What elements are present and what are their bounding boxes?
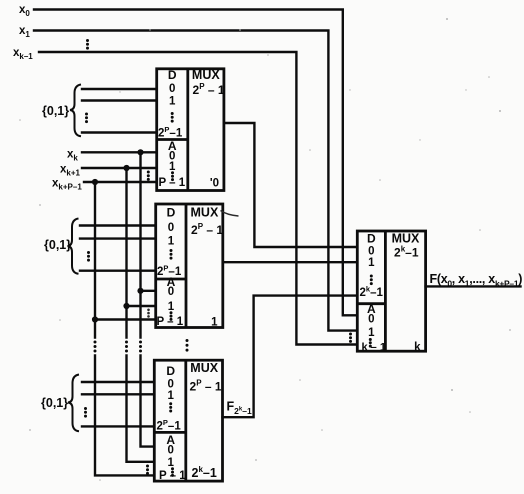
svg-text:1: 1 bbox=[368, 327, 375, 339]
svg-text:D: D bbox=[166, 364, 175, 378]
svg-text:1: 1 bbox=[167, 390, 174, 402]
mux U3 box bbox=[154, 360, 222, 481]
svg-text:0: 0 bbox=[368, 313, 374, 325]
ellipsis group2 D inputs bbox=[87, 251, 90, 262]
svg-text:2P – 1: 2P – 1 bbox=[191, 222, 223, 237]
junction dot xk / U2 A0 row bbox=[137, 288, 143, 294]
wire U3 output to U4 D(2^k-1) bbox=[223, 296, 358, 418]
mux U4 box bbox=[357, 231, 425, 351]
wire xk+P-1 branch to U2 A(P-1) bbox=[95, 318, 156, 320]
ellipsis U3 D column bbox=[169, 402, 172, 412]
ellipsis vertical break xk+1 bbox=[125, 341, 128, 353]
brace group3 bbox=[68, 375, 79, 432]
svg-text:MUX: MUX bbox=[392, 232, 420, 246]
ellipsis U1 A inputs outside bbox=[147, 171, 150, 181]
svg-text:2P – 1: 2P – 1 bbox=[190, 379, 222, 394]
junction dot xk+P-1 / U1 A(P-1) row bbox=[92, 179, 98, 185]
U1 A column labels bbox=[168, 139, 177, 173]
wire U2 output to U4 D1 bbox=[223, 261, 357, 263]
svg-text:2k–1: 2k–1 bbox=[360, 284, 384, 299]
stray mark near U2 MUX label bbox=[221, 211, 239, 217]
mux U1 box bbox=[157, 69, 224, 191]
wire xk+1 to U1 A1 bbox=[82, 167, 157, 169]
junction dot xk+1 / U2 A1 row bbox=[123, 303, 129, 309]
wire vertical xk+P-1 lower segment into U3 A(P-1) bbox=[95, 356, 154, 476]
svg-text:0: 0 bbox=[168, 222, 174, 234]
wire group1 D1 input bbox=[82, 99, 157, 101]
svg-text:2P–1: 2P–1 bbox=[157, 418, 182, 433]
svg-text:D: D bbox=[367, 232, 376, 246]
svg-text:0: 0 bbox=[168, 286, 174, 298]
wire vertical xk+1 upper segment bbox=[125, 168, 127, 338]
wire xk branch to U2 A0 bbox=[141, 290, 156, 292]
ellipsis U2 A column bbox=[170, 311, 173, 321]
U2 left column labels bbox=[167, 206, 176, 248]
brace group1 bbox=[70, 85, 81, 137]
U2 A column labels bbox=[167, 275, 176, 313]
wire vertical xk lower segment into U3 A0 bbox=[141, 356, 155, 447]
ellipsis group1 D inputs bbox=[85, 113, 88, 124]
ellipsis more MUX blocks between U2 and U3 bbox=[186, 339, 189, 352]
svg-text:1: 1 bbox=[169, 161, 176, 173]
wire U4 output F bbox=[426, 285, 521, 287]
U4 A column labels bbox=[367, 302, 376, 339]
svg-text:{0,1}: {0,1} bbox=[44, 238, 71, 252]
wire group3 D0 input bbox=[82, 381, 154, 383]
wire vertical xk upper segment bbox=[139, 152, 141, 337]
svg-text:MUX: MUX bbox=[190, 361, 218, 375]
svg-text:D: D bbox=[168, 68, 177, 82]
wire xk-1 horizontal+vertical to U4 A(k-1) bbox=[39, 52, 357, 345]
wire x1 horizontal+vertical to U4 A1 bbox=[34, 31, 357, 331]
svg-text:P – 1: P – 1 bbox=[157, 316, 184, 328]
wire xk+P-1 to U1 A(P-1) bbox=[84, 181, 157, 183]
ellipsis U4 D column bbox=[370, 275, 373, 286]
wire group3 D(2^P-1) input bbox=[82, 425, 154, 427]
svg-text:P – 1: P – 1 bbox=[159, 177, 186, 189]
svg-text:2k–1: 2k–1 bbox=[394, 244, 419, 259]
brace group2 bbox=[68, 219, 79, 274]
ellipsis U3 A column bbox=[171, 467, 174, 477]
U1 left column labels bbox=[168, 68, 177, 108]
wire group3 D1 input bbox=[82, 393, 154, 395]
ellipsis U2 D column bbox=[170, 249, 173, 260]
ellipsis U1 A column bbox=[171, 171, 174, 181]
wire group2 D1 input bbox=[80, 237, 156, 239]
svg-text:2P–1: 2P–1 bbox=[158, 125, 183, 140]
ellipsis U4 A inputs outside bbox=[349, 333, 352, 343]
wire group2 D0 input bbox=[80, 224, 156, 226]
ellipsis U3 A inputs outside bbox=[146, 465, 149, 475]
svg-text:D: D bbox=[167, 206, 176, 220]
wire group1 D0 input bbox=[82, 88, 157, 90]
ellipsis vertical break xk bbox=[139, 341, 142, 353]
wire group1 D(2^P-1) input bbox=[82, 131, 157, 133]
wire xk+1 branch to U2 A1 bbox=[127, 305, 156, 307]
svg-text:1: 1 bbox=[169, 96, 176, 108]
U4 left column labels bbox=[367, 232, 376, 269]
svg-text:k: k bbox=[414, 342, 421, 354]
svg-text:0: 0 bbox=[167, 379, 173, 391]
ellipsis vertical break xk+P-1 bbox=[94, 341, 97, 353]
ellipsis between x1 and xk-1 bbox=[86, 39, 89, 50]
svg-text:{0,1}: {0,1} bbox=[41, 396, 68, 410]
svg-text:MUX: MUX bbox=[191, 206, 219, 220]
svg-text:1: 1 bbox=[368, 257, 375, 269]
svg-text:1: 1 bbox=[211, 316, 218, 328]
ellipsis group3 D inputs bbox=[84, 407, 87, 418]
ellipsis U2 A inputs outside bbox=[147, 309, 150, 318]
svg-text:1: 1 bbox=[167, 457, 174, 469]
ellipsis U4 A column bbox=[369, 338, 372, 348]
U3 A column labels bbox=[166, 433, 175, 469]
svg-text:'0: '0 bbox=[210, 177, 219, 189]
svg-text:0: 0 bbox=[169, 83, 175, 95]
mux U2 box bbox=[156, 204, 223, 328]
wire U1 output to U4 D0 bbox=[224, 123, 357, 247]
junction dot xk+1 / U1 A1 row bbox=[123, 165, 129, 171]
junction dot xk+P-1 / U2 A(P-1) row bbox=[92, 316, 98, 322]
wire group2 D(2^P-1) input bbox=[80, 270, 156, 272]
svg-text:k – 1: k – 1 bbox=[362, 341, 386, 353]
svg-text:2P – 1: 2P – 1 bbox=[193, 82, 225, 97]
ellipsis U1 D column bbox=[171, 112, 174, 123]
wire xk to U1 A0 bbox=[82, 151, 157, 153]
wire vertical xk+P-1 upper segment bbox=[94, 182, 96, 338]
svg-text:1: 1 bbox=[168, 236, 175, 248]
svg-text:MUX: MUX bbox=[192, 68, 220, 82]
U3 left column labels bbox=[166, 364, 175, 402]
svg-text:2k–1: 2k–1 bbox=[192, 465, 217, 480]
wire vertical xk+1 lower segment into U3 A1 bbox=[127, 356, 155, 462]
svg-text:{0,1}: {0,1} bbox=[42, 104, 69, 118]
junction dot xk / U1 A0 row bbox=[137, 149, 143, 155]
svg-text:P – 1: P – 1 bbox=[159, 470, 186, 482]
svg-text:0: 0 bbox=[167, 445, 173, 457]
svg-text:0: 0 bbox=[368, 246, 374, 258]
wire x0 horizontal+vertical to U4 A0 bbox=[34, 10, 357, 316]
